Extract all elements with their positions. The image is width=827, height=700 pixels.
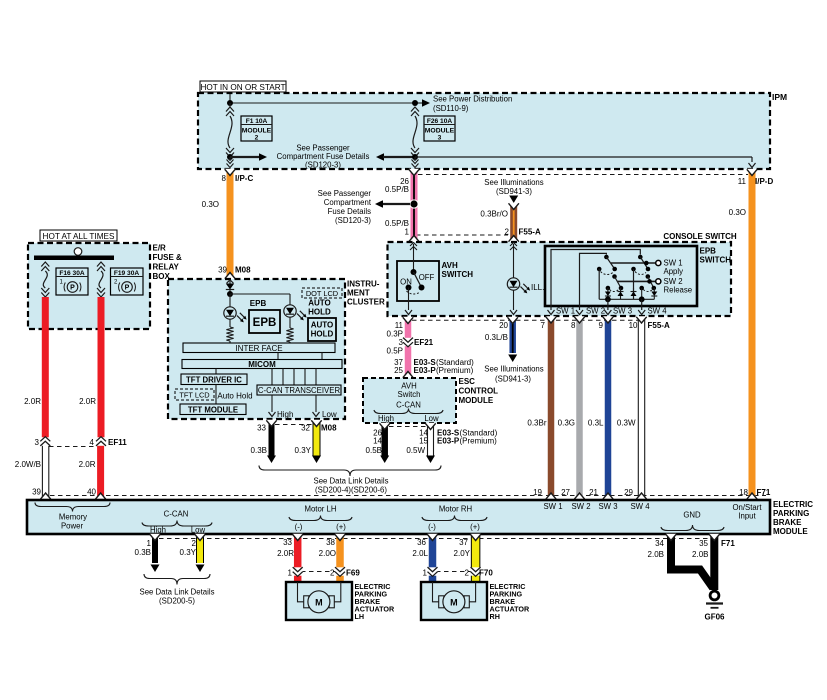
svg-text:F16 30A: F16 30A <box>59 270 85 277</box>
svg-text:See Passenger: See Passenger <box>318 189 372 198</box>
INTER FACE bar <box>183 343 335 353</box>
svg-text:M08: M08 <box>235 266 251 275</box>
svg-text:High: High <box>150 526 166 535</box>
text See Illuminations top <box>484 178 543 196</box>
label ELECTRIC PARKING BRAKE MODULE <box>773 500 813 536</box>
label 0.3P <box>387 330 403 339</box>
resistor AUTO HOLD LED <box>286 318 293 344</box>
wire F26 exit stub <box>412 157 419 168</box>
svg-text:(Premium): (Premium) <box>460 437 498 446</box>
svg-text:1: 1 <box>147 539 152 548</box>
EPB switch inner box <box>545 246 697 306</box>
label Low cluster <box>322 410 337 419</box>
svg-text:25: 25 <box>394 366 403 375</box>
svg-text:35: 35 <box>699 539 708 548</box>
svg-text:(SD941-3): (SD941-3) <box>496 187 532 196</box>
svg-text:0.3Y: 0.3Y <box>180 548 197 557</box>
wire 0.3O I/P-C <box>225 169 235 279</box>
svg-text:Low: Low <box>191 526 206 535</box>
pins 14 15 esc <box>419 429 428 446</box>
svg-text:2.0R: 2.0R <box>24 397 41 406</box>
node battery terminal <box>74 248 82 256</box>
svg-text:EPB: EPB <box>253 317 277 329</box>
svg-text:CONSOLE SWITCH: CONSOLE SWITCH <box>663 232 737 241</box>
node cluster junction <box>227 291 233 297</box>
label 0.5P <box>387 347 403 356</box>
svg-text:8: 8 <box>571 321 576 330</box>
motor M LH <box>298 582 341 613</box>
wire AVH feed <box>410 243 417 273</box>
connector dash line F69 <box>301 571 337 573</box>
svg-text:High: High <box>378 414 394 423</box>
svg-text:INSTRU-: INSTRU- <box>347 280 380 289</box>
label C-CAN esc <box>396 401 421 410</box>
svg-text:4: 4 <box>90 438 95 447</box>
wire transceiver high out <box>269 395 276 417</box>
svg-text:29: 29 <box>624 488 633 497</box>
ground GF06 <box>704 591 725 621</box>
wire 0.3Y cluster low <box>311 420 321 463</box>
pin 8 I/P-C <box>222 174 254 183</box>
label CONSOLE SWITCH <box>663 232 737 241</box>
node rail SW4 <box>639 296 645 302</box>
AUTO HOLD box <box>308 318 336 341</box>
wire 2.0O motor lh <box>335 534 345 582</box>
brace see data link 2 <box>144 574 210 585</box>
label High esc <box>378 414 394 423</box>
svg-text:0.3L/B: 0.3L/B <box>485 333 508 342</box>
svg-text:CONTROL: CONTROL <box>459 387 499 396</box>
svg-text:RELAY: RELAY <box>153 263 180 272</box>
wire 0.3B cluster high <box>266 420 276 463</box>
arrow See Power Distribution <box>422 95 512 113</box>
fuse F19 30A box <box>111 268 144 295</box>
svg-text:FUSE &: FUSE & <box>153 253 183 262</box>
label IPM <box>772 92 787 102</box>
arrow to passenger fuse details (right) <box>230 153 267 161</box>
connector dash line module top row <box>50 495 766 497</box>
label Low module <box>191 526 206 535</box>
wire 2.0W/B <box>40 446 50 500</box>
svg-text:F69: F69 <box>346 569 360 578</box>
svg-text:MICOM: MICOM <box>248 360 276 369</box>
svg-text:C-CAN: C-CAN <box>164 510 189 519</box>
fuse F26 10A symbol <box>411 107 419 157</box>
wire 0.5W esc <box>425 423 435 463</box>
label minus rh <box>428 523 436 532</box>
pin 20 console <box>499 321 508 330</box>
svg-text:Motor LH: Motor LH <box>304 505 336 514</box>
wire micom-transceiver comb <box>272 369 316 386</box>
label SW3 module <box>598 502 617 511</box>
svg-text:ON: ON <box>400 278 412 287</box>
label High cluster <box>277 410 293 419</box>
svg-text:(SD120-3): (SD120-3) <box>335 216 371 225</box>
svg-text:SW 2: SW 2 <box>586 307 605 316</box>
label 0.3O right <box>729 208 746 217</box>
svg-text:3: 3 <box>35 438 40 447</box>
label E03 esc <box>437 429 498 446</box>
svg-text:39: 39 <box>32 488 41 497</box>
pins 26 14 esc <box>373 429 382 446</box>
fuse F19 30A symbol <box>97 262 105 297</box>
svg-text:MODULE: MODULE <box>459 396 494 405</box>
svg-text:E/R: E/R <box>153 244 167 253</box>
pin 8 console <box>571 321 576 330</box>
label 0.3B cluster <box>251 446 267 455</box>
svg-text:0.5P: 0.5P <box>387 347 403 356</box>
LED ILL <box>507 278 530 294</box>
fuse F16 30A box <box>56 268 88 295</box>
svg-text:7: 7 <box>541 321 546 330</box>
svg-text:0.3Br/O: 0.3Br/O <box>480 210 508 219</box>
svg-text:Auto Hold: Auto Hold <box>217 392 252 401</box>
svg-text:Release: Release <box>664 286 693 295</box>
svg-text:Compartment: Compartment <box>324 198 372 207</box>
label actuator RH <box>490 582 530 621</box>
motor M RH <box>433 582 476 613</box>
svg-text:ILL.: ILL. <box>531 283 544 292</box>
svg-text:SW 1: SW 1 <box>543 502 562 511</box>
svg-text:C-CAN: C-CAN <box>396 401 421 410</box>
svg-text:IPM: IPM <box>772 92 787 102</box>
pin 27 module <box>561 488 570 497</box>
label AVH SWITCH <box>442 261 474 279</box>
svg-text:HOLD: HOLD <box>308 308 331 317</box>
svg-text:20: 20 <box>499 321 508 330</box>
svg-text:11: 11 <box>738 177 747 186</box>
svg-text:AUTO: AUTO <box>308 299 331 308</box>
wire 0.5P/B <box>409 169 419 242</box>
node IPM junction A <box>227 100 233 106</box>
svg-text:37: 37 <box>459 538 468 547</box>
label 0.5P/B lower <box>385 219 409 228</box>
svg-text:2.0Y: 2.0Y <box>454 549 471 558</box>
svg-text:0.3W: 0.3W <box>617 419 636 428</box>
text see data link 1 <box>314 477 389 495</box>
svg-text:1: 1 <box>423 569 428 578</box>
svg-text:39: 39 <box>218 266 227 275</box>
wire 0.5B esc <box>380 423 390 463</box>
svg-text:0.3L: 0.3L <box>588 419 604 428</box>
svg-text:I/P-C: I/P-C <box>235 174 253 183</box>
pin 2 F69 <box>330 569 360 578</box>
pin 21 module <box>589 488 598 497</box>
svg-text:LH: LH <box>355 612 365 621</box>
connector dash line F55-A top row <box>416 234 508 236</box>
label 0.3O <box>202 200 219 209</box>
wire 2.0B gnd 34 <box>666 534 713 588</box>
svg-text:10: 10 <box>629 321 638 330</box>
svg-text:40: 40 <box>87 488 96 497</box>
text See Illuminations bottom <box>484 365 543 384</box>
wire IPM top bus <box>230 94 423 103</box>
pin 37 bottom <box>459 538 468 547</box>
svg-text:2.0L: 2.0L <box>412 549 428 558</box>
pin 36 bottom <box>417 538 426 547</box>
bottom rail <box>599 298 654 300</box>
svg-text:E03-P: E03-P <box>414 366 437 375</box>
svg-text:15: 15 <box>419 437 428 446</box>
svg-text:SW 3: SW 3 <box>598 502 617 511</box>
label 0.3L <box>588 419 604 428</box>
svg-text:BRAKE: BRAKE <box>773 518 802 527</box>
DOT LCD box (dashed) <box>302 288 342 298</box>
LED EPB indicator <box>224 294 247 322</box>
svg-text:MENT: MENT <box>347 289 370 298</box>
wire SW2 exit arrow <box>576 306 583 315</box>
svg-text:See Illuminations: See Illuminations <box>484 365 543 374</box>
brace motor lh <box>289 516 352 521</box>
label 0.3G <box>558 419 575 428</box>
label ILL <box>531 283 544 292</box>
wire interface-micom <box>278 353 322 360</box>
svg-text:GF06: GF06 <box>704 613 725 622</box>
svg-text:EPB: EPB <box>250 299 267 308</box>
brace motor rh <box>422 516 487 521</box>
arrow see passenger fuse details <box>375 200 410 208</box>
pin 1 bottom <box>147 539 152 548</box>
label 0.3W <box>617 419 636 428</box>
svg-text:E03-P: E03-P <box>437 437 460 446</box>
svg-text:(SD200-5): (SD200-5) <box>159 597 195 606</box>
label 0.3Y cluster <box>295 446 312 455</box>
svg-text:F70: F70 <box>479 569 493 578</box>
pin 3 EF11 <box>35 438 40 447</box>
svg-text:0.3B: 0.3B <box>251 446 267 455</box>
label SW2 module <box>571 502 590 511</box>
wire 2.0R lower <box>95 446 105 500</box>
wire transceiver low out <box>313 395 320 417</box>
wire 0.3Y bottom <box>195 534 205 572</box>
label 2.0R left <box>24 397 41 406</box>
TFT DRIVER IC box <box>181 374 247 385</box>
wire 0.3Br/O <box>509 203 519 242</box>
svg-text:2: 2 <box>465 569 470 578</box>
diode cluster input <box>226 280 234 294</box>
svg-text:AVH: AVH <box>442 261 459 270</box>
svg-text:TFT DRIVER IC: TFT DRIVER IC <box>186 375 242 384</box>
svg-text:8: 8 <box>222 174 227 183</box>
svg-text:GND: GND <box>683 511 701 520</box>
C-CAN TRANSCEIVER box <box>257 385 341 395</box>
arrow from illuminations <box>509 196 518 204</box>
label 2.0B 35 <box>692 550 708 559</box>
label minus lh <box>295 523 303 532</box>
svg-text:(-): (-) <box>295 523 303 532</box>
svg-text:ESC: ESC <box>459 377 476 386</box>
label 0.3Br <box>527 419 546 428</box>
pin 18 F71 <box>739 488 771 497</box>
svg-text:0.3Y: 0.3Y <box>295 446 312 455</box>
svg-text:M: M <box>315 597 323 607</box>
svg-text:27: 27 <box>561 488 570 497</box>
svg-text:(SD110-9): (SD110-9) <box>433 104 469 113</box>
wire 2.0R motor lh <box>293 534 303 582</box>
wire SW3 exit <box>604 299 611 314</box>
svg-text:32: 32 <box>301 424 310 433</box>
svg-text:9: 9 <box>599 321 604 330</box>
svg-text:(+): (+) <box>336 523 346 532</box>
label 2.0O motor <box>319 549 336 558</box>
MICOM bar <box>182 360 342 369</box>
pin 2 bottom <box>192 539 197 548</box>
label SW1 module <box>543 502 562 511</box>
svg-text:2.0R: 2.0R <box>79 460 96 469</box>
brace gnd <box>661 525 724 531</box>
pin 2 F70 <box>465 569 494 578</box>
wire AVH out <box>405 288 412 315</box>
text See Passenger Compartment Fuse Details <box>277 144 370 170</box>
connector dash line module bottom row <box>159 538 714 540</box>
svg-text:Apply: Apply <box>664 267 684 276</box>
svg-text:HOT IN ON OR START: HOT IN ON OR START <box>200 83 285 92</box>
pin 32 M08 <box>301 424 337 433</box>
svg-text:See Data Link Details: See Data Link Details <box>140 588 215 597</box>
node pink junction <box>409 199 418 208</box>
svg-text:Motor RH: Motor RH <box>439 505 472 514</box>
wire ILL feed <box>510 243 517 278</box>
svg-text:38: 38 <box>326 538 335 547</box>
label SW 2 Release <box>664 277 693 295</box>
pin 33 M08 <box>257 424 266 433</box>
SW1 apply line <box>611 260 661 265</box>
node IPM junction B <box>412 100 418 106</box>
label GND module <box>683 511 701 520</box>
wire 2.0R mid <box>96 297 106 446</box>
connector dash line EF11 row <box>49 446 97 448</box>
svg-text:HOT AT ALL TIMES: HOT AT ALL TIMES <box>43 232 115 241</box>
label INSTRUMENT CLUSTER <box>347 280 385 307</box>
fuse F1 10A symbol <box>226 103 234 157</box>
pin 38 bottom <box>326 538 335 547</box>
node rail SW3 <box>605 296 611 302</box>
svg-text:BOX: BOX <box>153 272 171 281</box>
svg-text:0.3O: 0.3O <box>202 200 219 209</box>
svg-text:3: 3 <box>438 135 442 142</box>
pin 33 bottom <box>283 538 292 547</box>
wire tftdriver-tftmodule <box>215 385 217 405</box>
label E/R FUSE & RELAY BOX <box>153 244 183 282</box>
pin 1 F69 <box>288 569 293 578</box>
E/R fuse and relay box (dashed) <box>28 243 150 329</box>
svg-text:F55-A: F55-A <box>648 321 670 330</box>
wire SW2 feed <box>580 253 607 306</box>
svg-text:P: P <box>125 285 130 292</box>
arrow from F26 (left) <box>376 153 415 161</box>
pin 26 <box>400 177 409 186</box>
pin 2 F55-A <box>505 228 541 237</box>
svg-text:F19 30A: F19 30A <box>114 270 140 277</box>
wire SW4 exit <box>638 299 645 314</box>
svg-text:SWITCH: SWITCH <box>442 270 474 279</box>
svg-text:34: 34 <box>655 539 664 548</box>
label Auto Hold <box>217 392 252 401</box>
label SW1 bottom <box>556 307 575 316</box>
label Memory Power <box>59 513 87 531</box>
svg-text:33: 33 <box>257 424 266 433</box>
svg-text:P: P <box>70 285 75 292</box>
label 2.0W/B <box>15 460 41 469</box>
svg-text:2.0R: 2.0R <box>79 397 96 406</box>
pin 4 EF11 <box>90 438 128 447</box>
switch arm left <box>604 255 623 291</box>
svg-text:2.0R: 2.0R <box>277 549 294 558</box>
label 0.5P/B upper <box>385 185 409 194</box>
label HOT IN ON OR START <box>200 81 286 92</box>
pin 11 console <box>395 321 404 330</box>
instrument cluster box (dashed) <box>168 279 345 419</box>
IPM fuse box (dashed) <box>198 93 770 169</box>
svg-text:SWITCH: SWITCH <box>700 256 732 265</box>
node F1 lower junction <box>227 154 233 160</box>
label 0.5B <box>366 446 382 455</box>
svg-text:MODULE: MODULE <box>242 128 272 135</box>
svg-text:I/P-D: I/P-D <box>755 177 773 186</box>
switch arm right <box>638 255 656 291</box>
diode pair left <box>605 286 624 300</box>
pin 1 F70 <box>423 569 428 578</box>
svg-text:C-CAN TRANSCEIVER: C-CAN TRANSCEIVER <box>258 386 341 395</box>
label actuator LH <box>355 582 395 621</box>
svg-text:INTER FACE: INTER FACE <box>235 344 282 353</box>
text see data link 2 <box>140 588 215 606</box>
svg-text:SW 2: SW 2 <box>571 502 590 511</box>
svg-text:F71: F71 <box>721 539 735 548</box>
svg-text:Low: Low <box>424 414 439 423</box>
svg-text:0.3G: 0.3G <box>558 419 575 428</box>
svg-text:SW 3: SW 3 <box>613 307 632 316</box>
svg-text:0.3Br: 0.3Br <box>527 419 546 428</box>
pin 40 module <box>87 488 96 497</box>
label Low esc <box>424 414 439 423</box>
svg-text:33: 33 <box>283 538 292 547</box>
label 2.0B 34 <box>648 550 664 559</box>
pin 19 module <box>533 488 542 497</box>
svg-text:DOT LCD: DOT LCD <box>306 289 338 298</box>
svg-text:(+): (+) <box>470 523 480 532</box>
pin 3 EF21 <box>399 338 434 347</box>
svg-text:See Illuminations: See Illuminations <box>484 178 543 187</box>
pin 37 25 E03 <box>394 358 474 375</box>
label 0.3B bottom <box>135 548 151 557</box>
electric parking brake module box <box>27 500 770 534</box>
console switch box (dashed) <box>388 242 732 316</box>
label ESC CONTROL MODULE <box>459 377 499 405</box>
label On/Start Input <box>732 503 762 521</box>
svg-text:21: 21 <box>589 488 598 497</box>
svg-text:F26 10A: F26 10A <box>427 118 453 125</box>
svg-text:Low: Low <box>322 410 337 419</box>
label SW2 bottom <box>586 307 605 316</box>
svg-text:M08: M08 <box>321 424 337 433</box>
svg-text:0.3O: 0.3O <box>729 208 746 217</box>
wire 0.3W SW4 <box>636 316 646 499</box>
label SW3 bottom <box>613 307 632 316</box>
ESC control module box (dashed) <box>363 378 456 423</box>
brace memory power <box>35 503 110 512</box>
svg-text:EF11: EF11 <box>108 438 127 447</box>
svg-text:19: 19 <box>533 488 542 497</box>
TFT LCD box (dashed) <box>175 389 214 400</box>
svg-text:MODULE: MODULE <box>425 128 455 135</box>
svg-text:TFT LCD: TFT LCD <box>179 391 209 400</box>
svg-text:Fuse Details: Fuse Details <box>328 207 371 216</box>
wire 0.3B bottom <box>150 534 160 572</box>
brace see data link 1 <box>259 466 441 477</box>
AVH switch box <box>397 261 439 301</box>
label AUTO HOLD small <box>308 299 331 317</box>
